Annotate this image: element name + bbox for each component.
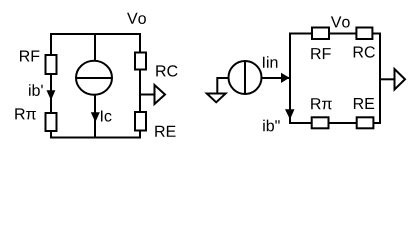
label RC xyxy=(156,65,177,76)
label Rpi xyxy=(15,108,36,119)
label RC xyxy=(354,46,375,57)
resistor Rpi xyxy=(46,113,57,131)
label ib' xyxy=(29,84,43,96)
resistor RF xyxy=(312,28,329,40)
resistor RC xyxy=(135,53,146,70)
label RF xyxy=(311,48,330,59)
current source bar xyxy=(244,62,246,94)
wire source to ground elbow xyxy=(217,78,228,94)
arrow Iin xyxy=(281,73,290,83)
label Rpi xyxy=(311,98,332,109)
current source bar xyxy=(77,77,112,79)
wire right branch vertical xyxy=(139,34,141,138)
output port triangle xyxy=(155,85,166,104)
label Vo xyxy=(127,13,146,24)
current source circle xyxy=(229,61,262,94)
current source circle xyxy=(76,61,112,95)
arrow ib" xyxy=(285,109,295,119)
arrow ib' xyxy=(47,90,56,100)
ground triangle xyxy=(207,94,226,103)
wire top horizontal xyxy=(50,33,141,35)
label RE xyxy=(354,98,374,109)
label RE xyxy=(155,126,175,137)
wire loop rectangle xyxy=(290,34,380,124)
resistor RF xyxy=(46,55,57,74)
label Iin xyxy=(263,56,277,68)
label ib" xyxy=(263,120,279,132)
output port triangle xyxy=(395,69,406,90)
output stub wire xyxy=(380,78,395,80)
wire left branch vertical xyxy=(50,34,52,138)
resistor RC xyxy=(356,28,372,40)
wire middle branch vertical xyxy=(94,34,96,138)
arrow Ic xyxy=(91,112,100,122)
label Ic xyxy=(101,110,112,121)
label RF xyxy=(20,50,39,61)
resistor RE xyxy=(357,117,374,128)
resistor Rpi xyxy=(312,117,329,128)
wire source to node xyxy=(262,77,291,79)
output stub wire xyxy=(140,94,154,96)
label Vo xyxy=(331,16,350,27)
wire bottom horizontal xyxy=(50,137,141,139)
resistor RE xyxy=(135,112,146,131)
